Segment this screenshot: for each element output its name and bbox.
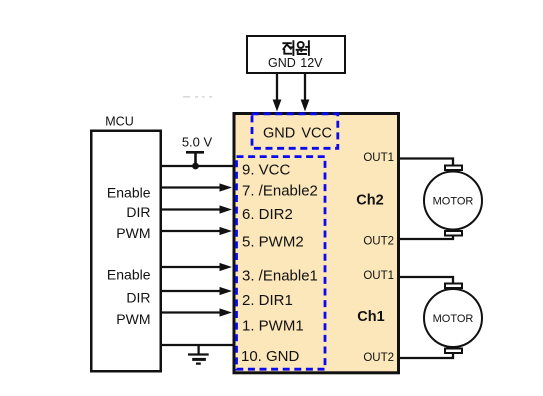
motor M2 (424, 289, 482, 347)
faint artifact dashes (183, 96, 212, 98)
svg-text:DIR: DIR (126, 289, 150, 305)
svg-text:OUT1: OUT1 (363, 152, 394, 164)
svg-text:MOTOR: MOTOR (433, 195, 474, 207)
motor driver IC U1 (234, 114, 399, 373)
svg-text:Ch1: Ch1 (357, 309, 384, 325)
svg-text:3. /Enable1: 3. /Enable1 (242, 268, 318, 285)
svg-text:5.0 V: 5.0 V (182, 134, 213, 149)
svg-text:DIR: DIR (126, 204, 150, 220)
wire MCU PWM to pin 1 (160, 308, 232, 316)
wire OUT2 Ch1 to motor M2 (398, 353, 453, 359)
MCU block (91, 131, 161, 372)
motor M1 top terminal (445, 166, 462, 171)
svg-text:GND: GND (263, 125, 295, 141)
svg-text:MOTOR: MOTOR (433, 313, 474, 325)
svg-text:9. VCC: 9. VCC (242, 162, 291, 179)
svg-text:OUT2: OUT2 (363, 352, 394, 364)
wire GND from power supply to IC (273, 74, 282, 112)
svg-text:OUT2: OUT2 (363, 236, 394, 248)
motor M1 bottom terminal (445, 231, 462, 236)
wire VCC from power supply to IC (301, 74, 310, 112)
dashed box control pins (237, 157, 326, 370)
svg-text:Ch2: Ch2 (356, 193, 383, 209)
svg-text:7. /Enable2: 7. /Enable2 (242, 183, 318, 200)
wire OUT1 Ch1 to motor M2 (398, 277, 453, 284)
label 전원 (Korean: power) (283, 41, 309, 55)
svg-text:5. PWM2: 5. PWM2 (242, 234, 304, 251)
wire MCU Enable to pin 7 (160, 183, 232, 191)
label GND 12V (268, 56, 323, 70)
svg-text:6. DIR2: 6. DIR2 (242, 206, 293, 223)
svg-text:PWM: PWM (116, 225, 150, 241)
wire MCU DIR to pin 6 (160, 205, 232, 213)
svg-text:PWM: PWM (116, 311, 150, 327)
svg-text:Enable: Enable (107, 266, 151, 282)
svg-text:2. DIR1: 2. DIR1 (242, 292, 293, 309)
label GND VCC (263, 125, 332, 141)
svg-text:OUT1: OUT1 (363, 270, 394, 282)
svg-text:MCU: MCU (105, 115, 133, 129)
wire MCU DIR to pin 2 (160, 287, 232, 295)
power supply block (247, 36, 345, 73)
svg-text:1. PWM1: 1. PWM1 (242, 318, 304, 335)
wire MCU to pin 10 GND (160, 344, 234, 346)
motor M1 (424, 172, 482, 230)
wire OUT1 Ch2 to motor M1 (398, 159, 453, 166)
ground (188, 345, 209, 364)
node junction dot (192, 163, 199, 170)
motor M2 bottom terminal (445, 349, 462, 354)
svg-text:GND: GND (268, 56, 296, 70)
dashed box power pins (GND VCC) (252, 114, 338, 149)
power rail 5.0V tap (186, 152, 204, 165)
wire MCU Enable to pin 3 (160, 263, 232, 271)
wire MCU to pin 9 VCC (160, 165, 234, 167)
wire OUT2 Ch2 to motor M1 (398, 235, 453, 239)
svg-text:VCC: VCC (301, 125, 332, 141)
wire MCU PWM to pin 5 (160, 227, 232, 235)
svg-text:Enable: Enable (107, 184, 151, 200)
svg-text:10. GND: 10. GND (241, 348, 300, 365)
svg-text:12V: 12V (300, 56, 323, 70)
motor M2 top terminal (445, 284, 462, 289)
